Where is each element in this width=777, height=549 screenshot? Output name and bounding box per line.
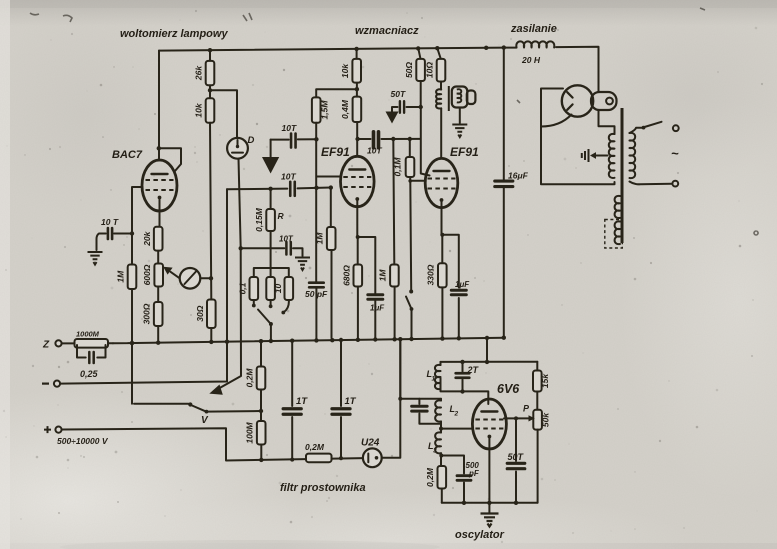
- svg-text:50Ω: 50Ω: [404, 62, 414, 78]
- svg-text:BAC7: BAC7: [112, 149, 143, 161]
- inductor headphone primary: [436, 89, 441, 108]
- svg-text:680Ω: 680Ω: [342, 265, 352, 286]
- wire 16uF riser: [503, 48, 505, 338]
- wire 6V6 cathode to ground: [488, 437, 490, 513]
- capacitor 10T interstage (fat): [374, 132, 379, 148]
- svg-text:10 T: 10 T: [101, 217, 119, 227]
- probe D: [227, 138, 248, 159]
- resistor 0,1M: [406, 157, 415, 177]
- svg-text:10: 10: [273, 284, 283, 294]
- resistor 330&#937;: [438, 263, 447, 287]
- ground 6V6: [481, 514, 499, 527]
- capacitor 16uF: [495, 181, 513, 187]
- capacitor 1T first: [291, 341, 293, 460]
- svg-text:10T: 10T: [367, 146, 382, 156]
- svg-text:filtr prostownika: filtr prostownika: [280, 482, 366, 494]
- svg-text:600Ω: 600Ω: [142, 264, 152, 285]
- svg-text:wzmacniacz: wzmacniacz: [355, 25, 419, 37]
- svg-text:1T: 1T: [345, 396, 357, 407]
- svg-text:10T: 10T: [279, 235, 294, 244]
- svg-text:0,4M: 0,4M: [340, 99, 350, 119]
- capacitor 1uF cathode#1: [368, 295, 383, 300]
- svg-text:6V6: 6V6: [497, 382, 520, 396]
- svg-text:D: D: [248, 135, 255, 146]
- svg-text:1000M: 1000M: [76, 330, 100, 339]
- svg-text:20 H: 20 H: [521, 55, 541, 65]
- svg-text:26k: 26k: [194, 65, 204, 81]
- transformer core (headphone): [448, 86, 450, 111]
- ground at BAC7 grid cap: [88, 252, 103, 265]
- resistor 0,2M filter (horizontal): [306, 454, 332, 463]
- svg-text:10T: 10T: [281, 172, 296, 182]
- arrow to probe (down): [262, 157, 279, 174]
- capacitor 10T coupling lower: [290, 182, 295, 196]
- svg-text:1μF: 1μF: [455, 280, 470, 289]
- potentiometer 600&#937;: [154, 264, 163, 287]
- terminal plus 500-10000V: [55, 427, 61, 433]
- svg-text:2: 2: [454, 411, 459, 418]
- resistor 26k: [209, 50, 211, 98]
- resistor 1M grid leak EF91#1: [330, 188, 333, 338]
- ground arrow 50T: [386, 112, 399, 124]
- capacitor 50T screen bypass: [392, 107, 421, 112]
- ground at selector cap: [295, 258, 310, 271]
- svg-text:0,1: 0,1: [238, 282, 248, 294]
- svg-text:0,25: 0,25: [80, 369, 99, 379]
- potentiometer 50k with arrow P: [533, 410, 542, 430]
- svg-text:Z: Z: [42, 340, 50, 351]
- svg-text:woltomierz lampowy: woltomierz lampowy: [120, 28, 228, 40]
- svg-text:zasilanie: zasilanie: [510, 23, 557, 35]
- rectifier tube (zasilanie): [562, 85, 593, 116]
- svg-text:0,15M: 0,15M: [254, 207, 264, 232]
- wire 6V6 plate riser: [486, 338, 488, 362]
- capacitor 2T: [462, 362, 464, 392]
- trimmer capacitor L2: [419, 399, 441, 424]
- ground headphone: [452, 125, 467, 138]
- choke 20H: [505, 47, 599, 92]
- tube EF91 first: [341, 156, 375, 206]
- svg-text:2T: 2T: [467, 365, 480, 375]
- wire BAC7 cathode chain: [158, 198, 159, 343]
- wire EF91#1 cathode: [357, 199, 375, 340]
- svg-text:P: P: [523, 404, 530, 414]
- tube BAC7: [142, 160, 177, 211]
- svg-text:1T: 1T: [296, 396, 308, 407]
- capacitor 10T coupling upper: [291, 134, 296, 148]
- wire branch to 1,5M: [316, 89, 357, 97]
- resistor 1M (EF91#2): [390, 265, 399, 287]
- tube 6V6: [472, 399, 506, 449]
- capacitor 10T to ground (selector): [241, 248, 303, 256]
- svg-text:1μF: 1μF: [370, 304, 385, 313]
- terminal minus: [54, 381, 60, 387]
- svg-text:50T: 50T: [391, 89, 406, 99]
- resistor 15k: [536, 362, 538, 410]
- svg-text:16μF: 16μF: [508, 171, 529, 181]
- inductor L3: [440, 429, 442, 433]
- wire U24 to riser: [382, 339, 401, 458]
- svg-text:1M: 1M: [378, 269, 388, 282]
- svg-text:100M: 100M: [245, 421, 255, 443]
- resistor 20k: [154, 227, 163, 251]
- resistor 10k input divider: [206, 98, 215, 123]
- resistor 1,5M: [312, 97, 321, 122]
- wire D probe down to selector/arrow: [217, 159, 241, 390]
- svg-text:1M: 1M: [116, 270, 126, 283]
- inductor L2: [440, 399, 442, 401]
- svg-text:~: ~: [671, 146, 679, 161]
- transformer primary winding: [630, 133, 636, 178]
- selector contacts and wiper: [254, 300, 289, 312]
- wire minus to AC line riser: [60, 189, 227, 383]
- wire AC input line (from minus jack): [227, 188, 331, 190]
- svg-text:10T: 10T: [282, 123, 297, 133]
- tube U24 rectifier: [363, 448, 382, 467]
- wire grid#2 via 0,1M: [410, 139, 426, 181]
- svg-text:R: R: [278, 211, 285, 221]
- wire divider tap to D probe: [210, 90, 237, 137]
- switch V: [134, 403, 189, 405]
- tube EF91 second: [425, 158, 458, 207]
- resistor 10k (EF91 screen feed): [352, 59, 361, 83]
- wire grid node vertical: [132, 187, 143, 404]
- wire top supply bus: [159, 48, 505, 51]
- svg-text:10k: 10k: [194, 102, 204, 117]
- terminal mains bottom: [672, 181, 678, 187]
- meter M: [180, 268, 201, 289]
- svg-text:EF91: EF91: [450, 145, 479, 159]
- wire screen tap 6V6 to pot arrow: [504, 417, 529, 419]
- resistor 300&#937;: [154, 302, 163, 326]
- transformer core: [621, 108, 624, 243]
- wire 600ohm tap to meter: [171, 272, 180, 279]
- headphone earpiece: [452, 87, 468, 108]
- svg-text:10k: 10k: [340, 63, 350, 78]
- svg-text:300Ω: 300Ω: [142, 303, 152, 324]
- capacitor 1T second: [340, 340, 342, 458]
- oscillator ground bus: [442, 502, 538, 504]
- wire 10k plate feed: [356, 49, 359, 157]
- resistor 50&#937;: [416, 59, 425, 81]
- svg-text:3: 3: [433, 448, 437, 455]
- wire grid entry EF91#1: [316, 176, 341, 178]
- wire headphone to ground: [459, 108, 461, 124]
- resistor 30&#937;: [207, 300, 216, 329]
- svg-text:330Ω: 330Ω: [426, 264, 436, 285]
- wire probe line with down arrow: [271, 138, 317, 140]
- svg-text:0,1M: 0,1M: [393, 157, 403, 177]
- wire L3 bottom node: [441, 453, 464, 503]
- resistor 0,1 (range): [250, 277, 259, 300]
- capacitor 0,25 parallel: [77, 345, 106, 358]
- svg-text:0,2M: 0,2M: [305, 442, 325, 452]
- svg-text:0,2M: 0,2M: [425, 467, 435, 487]
- wire rectifier left rail: [541, 89, 614, 185]
- svg-text:10Ω: 10Ω: [425, 62, 435, 78]
- inductor L1: [440, 362, 442, 365]
- wire primary bottom to terminal: [630, 182, 672, 185]
- svg-text:50 pF: 50 pF: [305, 289, 328, 299]
- svg-text:50T: 50T: [508, 452, 525, 462]
- node top bus junctions: [208, 48, 212, 52]
- svg-text:pF: pF: [468, 469, 480, 478]
- resistor 1000M: [62, 342, 113, 344]
- svg-text:15k: 15k: [540, 373, 550, 388]
- switch grid#2 short: [406, 181, 412, 339]
- svg-text:30Ω: 30Ω: [195, 305, 205, 321]
- svg-text:0,2M: 0,2M: [245, 368, 255, 388]
- svg-text:500÷10000 V: 500÷10000 V: [57, 436, 109, 446]
- svg-text:EF91: EF91: [321, 145, 350, 159]
- wire plate#1 to coupling cap: [358, 138, 421, 140]
- tank rail top: [441, 361, 538, 363]
- svg-text:20k: 20k: [142, 230, 152, 246]
- resistor 0,15M R: [270, 189, 272, 249]
- wire anode to secondary: [599, 111, 615, 135]
- wire meter to 30ohm line: [200, 277, 211, 279]
- terminal mains top: [673, 125, 679, 131]
- tank rail bottom: [441, 378, 489, 404]
- resistor 10&#937;: [437, 48, 441, 89]
- svg-text:1M: 1M: [315, 232, 325, 245]
- wire divider down to bus: [210, 123, 211, 342]
- wire BAC7 grid-cap loop: [159, 148, 181, 171]
- L2 tank riser: [400, 339, 441, 399]
- resistor 0,2M oscillator: [438, 466, 447, 489]
- wire BAC7 plate-cap drop from bus: [158, 51, 160, 161]
- dashed box winding: [605, 220, 623, 249]
- capacitor 50T oscillator: [515, 418, 517, 502]
- wire EF91#2 cathode: [442, 200, 459, 339]
- ground tap on secondary: [593, 155, 608, 157]
- resistor 1 (range): [266, 277, 275, 300]
- capacitor 1uF cathode#2: [451, 290, 466, 295]
- svg-text:U24: U24: [361, 438, 380, 449]
- wire down to 1M + switch: [393, 139, 394, 340]
- capacitor 10T grid bypass: [114, 233, 132, 235]
- wire grid node vertical EF91#1: [315, 123, 317, 341]
- switch mains: [645, 122, 662, 127]
- capacitor 500pF: [457, 476, 471, 481]
- svg-text:1,5M: 1,5M: [320, 100, 330, 120]
- node lower bus junctions: [130, 341, 134, 345]
- svg-text:oscylator: oscylator: [455, 529, 505, 541]
- wire plus to filter bottom line: [62, 428, 363, 460]
- svg-text:50k: 50k: [541, 412, 551, 427]
- resistor 680&#937;: [354, 265, 363, 287]
- filament winding lower: [615, 196, 620, 218]
- terminal Z: [55, 340, 61, 346]
- transformer secondary winding: [609, 134, 615, 178]
- wire primary top to mains switch: [630, 128, 643, 133]
- resistor 1M grid: [128, 265, 137, 290]
- resistor 10 (range): [285, 277, 294, 300]
- wire screen#2 line: [418, 48, 429, 175]
- wire coil to plate#2: [440, 109, 442, 159]
- wire selector bank rail: [254, 248, 289, 277]
- divider 0,2M / 100M: [260, 341, 262, 460]
- resistor 0,4M: [353, 97, 362, 122]
- capacitor 50pF: [309, 283, 324, 288]
- grid tap to 6V6: [441, 421, 473, 428]
- svg-text:1: 1: [432, 376, 436, 383]
- wire main lower bus: [113, 338, 504, 344]
